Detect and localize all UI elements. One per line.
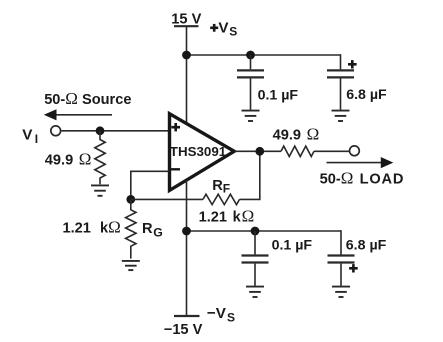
svg-text:−15 V: −15 V [164, 322, 203, 338]
junction −VS rail [182, 227, 191, 236]
svg-text:50-Ω LOAD: 50-Ω LOAD [320, 169, 405, 188]
resistor RG 1.21 kΩ [126, 199, 136, 258]
svg-text:S: S [229, 25, 237, 39]
svg-text:−V: −V [207, 305, 227, 322]
wire feedback right up to output [240, 151, 260, 199]
resistor R1 49.9 Ω (input termination) [95, 131, 105, 185]
svg-text:G: G [153, 226, 163, 240]
wire +VS vertical [186, 26, 188, 124]
wire input to op-amp + [61, 130, 169, 132]
op-amp + input marker [171, 123, 180, 131]
label VI [22, 127, 38, 146]
resistor R2 49.9 Ω (output series) [281, 146, 314, 156]
junction C3 [251, 227, 260, 236]
ground (R1) [91, 185, 109, 195]
wire feedback left [131, 198, 203, 200]
svg-text:15 V: 15 V [171, 11, 201, 27]
source arrow [44, 109, 112, 120]
−15V supply terminal bar [174, 315, 200, 317]
svg-text:49.9 Ω: 49.9 Ω [45, 150, 92, 169]
svg-text:S: S [227, 310, 235, 324]
capacitor C4 6.8 uF (bottom) [328, 256, 355, 286]
wire output [235, 150, 281, 152]
capacitor C2 polarity + [348, 60, 357, 68]
svg-text:THS3091: THS3091 [170, 144, 227, 159]
capacitor C1 0.1 uF (top) [237, 55, 264, 110]
wire −VS vertical [186, 180, 188, 316]
junction +VS / C1 [246, 51, 255, 60]
svg-text:0.1 µF: 0.1 µF [258, 87, 299, 103]
ground (RG) [122, 261, 140, 270]
svg-text:49.9 Ω: 49.9 Ω [273, 125, 320, 144]
input terminal VI [51, 126, 61, 136]
load arrow [327, 157, 394, 168]
svg-text:0.1 µF: 0.1 µF [272, 238, 313, 254]
label +VS [210, 20, 237, 39]
capacitor C4 polarity + [349, 264, 358, 272]
ground (C3) [246, 287, 264, 297]
wire inverting input [131, 171, 169, 196]
wire C2 drop from rail [340, 54, 342, 69]
svg-text:V: V [218, 20, 229, 37]
ground (C1) [242, 111, 260, 121]
op-amp − input marker [171, 168, 180, 170]
svg-text:V: V [22, 127, 33, 144]
wire to output terminal [314, 150, 349, 152]
junction +VS / op-amp supply [182, 51, 191, 60]
svg-text:1.21 kΩ: 1.21 kΩ [199, 206, 255, 225]
junction output / feedback [255, 147, 264, 156]
resistor RF 1.21 kΩ [203, 194, 240, 204]
ground (C4) [332, 287, 350, 297]
svg-text:I: I [35, 132, 38, 146]
wire −VS rail (bottom) [187, 230, 342, 232]
svg-text:R: R [142, 221, 153, 237]
op-amp U1 THS3091 [170, 114, 235, 191]
capacitor C3 0.1 uF (bottom) [242, 231, 269, 286]
svg-text:F: F [223, 182, 230, 196]
junction input / R1 [96, 126, 105, 135]
svg-text:R: R [212, 178, 223, 194]
label RF [212, 178, 230, 196]
+15V supply terminal bar [174, 25, 199, 27]
label −VS [207, 305, 235, 324]
output terminal [350, 146, 360, 156]
junction RG / RF [126, 195, 135, 204]
ground (C2) [332, 111, 350, 121]
svg-text:50-Ω Source: 50-Ω Source [44, 89, 131, 108]
wire C4 drop from rail [340, 230, 342, 254]
label RG [142, 221, 163, 240]
capacitor C2 6.8 uF (top) [327, 70, 354, 109]
wire +VS rail [187, 54, 341, 56]
svg-text:6.8 µF: 6.8 µF [346, 238, 387, 254]
svg-text:6.8 µF: 6.8 µF [346, 87, 387, 103]
